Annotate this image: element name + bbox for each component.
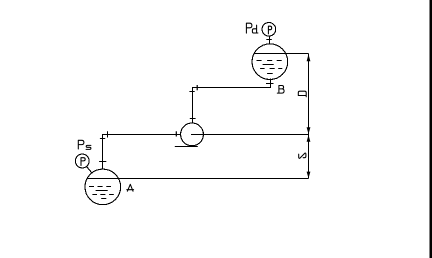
dimension arrow down (bottom, at tank A level) — [307, 172, 311, 179]
tank B liquid level line (extension line to dimension D) — [254, 53, 309, 55]
suction pipe horizontal to pump — [102, 134, 180, 136]
pump circle — [181, 123, 204, 146]
flange tick on discharge vertical (at pump) — [190, 118, 196, 120]
discharge pipe horizontal — [192, 87, 271, 89]
flange tick on suction horizontal (near corner) — [107, 131, 109, 137]
discharge pipe vertical from pump top — [192, 88, 194, 124]
tank A liquid level line (extension line to dimension S) — [87, 178, 309, 180]
tank B inlet vertical pipe — [270, 79, 272, 88]
right border line — [430, 0, 432, 258]
flange tick on discharge horizontal — [196, 85, 198, 90]
label B — [277, 86, 284, 94]
gauge Ps circle — [75, 154, 89, 168]
flange tick on discharge vertical (upper) — [189, 91, 194, 93]
pump base tangent line — [175, 146, 198, 148]
label D (rotated) — [298, 91, 306, 97]
label A — [127, 184, 134, 191]
label Ps — [78, 140, 91, 149]
tank A — [85, 169, 121, 205]
dimension arrow down (above pump centerline) — [307, 127, 311, 134]
tank B — [252, 44, 288, 80]
label S (rotated) — [299, 153, 306, 158]
suction pipe vertical from tank A top — [102, 134, 104, 169]
gauge Pd letter P — [268, 26, 271, 34]
flange tick on suction vertical (at tank A) — [99, 161, 106, 163]
tank B liquid dashes — [257, 61, 283, 74]
tank B top pipe to gauge Pd — [269, 36, 271, 44]
flange tick on tank B top pipe — [266, 39, 272, 41]
flange tick at tank B inlet — [266, 83, 274, 85]
dimension line vertical — [308, 54, 310, 179]
flange tick on suction vertical (upper) — [100, 138, 105, 140]
label Pd — [246, 23, 258, 33]
gauge Ps letter P — [81, 158, 85, 166]
flange tick at pump inlet — [175, 131, 177, 136]
tank A liquid dashes — [89, 187, 114, 199]
dimension arrow up (top, at tank B level) — [307, 54, 311, 61]
pump centerline to dimension line — [191, 134, 309, 136]
gauge Ps link to tank A — [87, 167, 92, 174]
dimension arrow up (below pump centerline) — [307, 135, 311, 142]
gauge Pd circle — [262, 23, 276, 37]
